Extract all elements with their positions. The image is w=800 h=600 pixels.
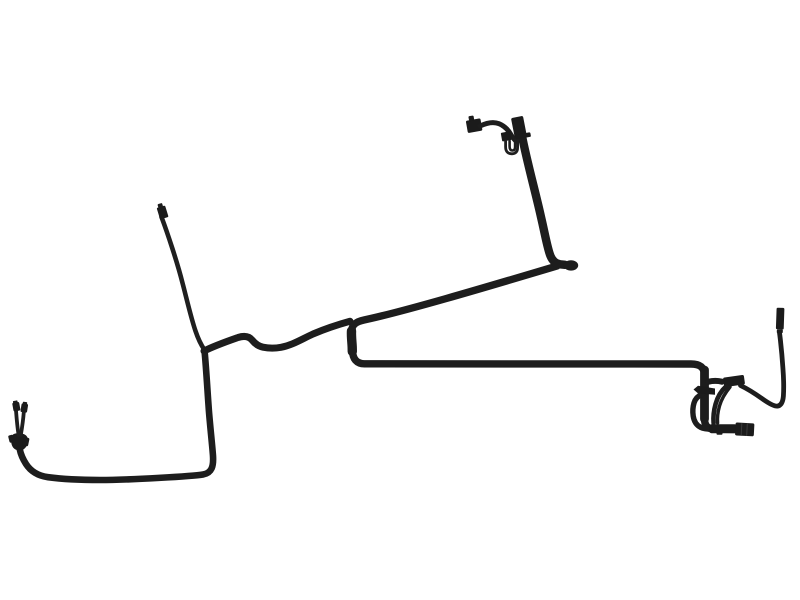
wire: down-bend thickening at center [347, 331, 357, 352]
connector box top (left) [465, 114, 482, 133]
connector assembly bottom-left [8, 433, 30, 450]
wire: branch to mid-right connector [709, 378, 723, 385]
wire: small u-loop inner [510, 140, 515, 151]
wire: strand from mid connector to bottom [713, 387, 726, 424]
wire: small u-loop outer [506, 140, 518, 154]
wire: right cluster u-loop [693, 394, 712, 429]
tab under bottom tube [717, 431, 723, 435]
connector block middle [501, 131, 512, 141]
connector tip bottom-left a [12, 400, 21, 412]
wire: corrugated middle hose (squiggle) [204, 321, 350, 351]
wire: arc cable from top-left box [480, 123, 516, 142]
wire: bottom-left descending loop to left end [20, 351, 213, 481]
wire: diagonal tube with down-bend and long horizontal main tube [352, 266, 737, 430]
wire: thin sensor line upper-left [162, 217, 205, 350]
tube end cap [564, 260, 578, 270]
wire: twin lead right [21, 412, 24, 435]
wire: vertical drop at right end (thicker) [700, 370, 709, 419]
wire: merge section before bottom connector [709, 424, 737, 433]
clamp clip right cluster [694, 386, 716, 395]
wire: second strand to bottom junction [717, 387, 730, 423]
connector box top (right, vertical) [511, 115, 531, 140]
wire: upper vertical supply tube [522, 136, 565, 265]
connector mid-right block [723, 375, 745, 387]
connector tip upper-left [156, 202, 169, 219]
wire: twin lead left [16, 411, 19, 436]
wire: long cable sweeping right and up to ferrule [741, 332, 784, 406]
connector tip bottom-left b [20, 401, 28, 412]
connector bottom-right (ribbed) [735, 422, 754, 436]
connector ferrule top-right [776, 308, 785, 333]
